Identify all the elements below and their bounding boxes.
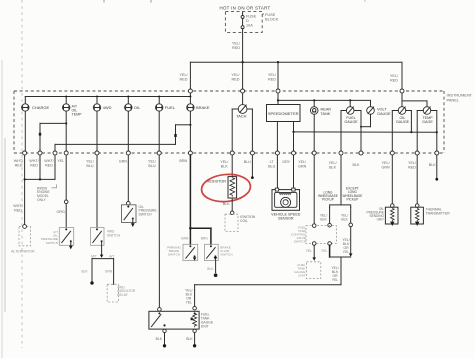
svg-text:BLK: BLK — [221, 164, 229, 168]
svg-text:GAUGE: GAUGE — [396, 120, 410, 124]
label INSTRUMENT PANEL — [447, 93, 473, 103]
svg-text:ONLY: ONLY — [37, 198, 47, 202]
gauge TEMP GAGE — [422, 107, 433, 125]
wire oil gauge YEL/GRN to sending unit — [391, 155, 395, 207]
label HOT IN ON OR START — [219, 6, 270, 11]
main tank grounds BLK — [156, 329, 197, 347]
svg-text:RED: RED — [14, 208, 22, 212]
tach side wires — [232, 109, 252, 153]
wire label BLK volt — [353, 163, 361, 167]
svg-text:FUSE: FUSE — [246, 15, 257, 19]
4wd switch — [91, 228, 121, 246]
svg-text:SWITCH: SWITCH — [294, 240, 306, 244]
svg-text:SWITCH: SWITCH — [46, 241, 58, 245]
wire brake lamp down — [189, 111, 191, 153]
svg-text:CHARGE: CHARGE — [32, 105, 49, 110]
wire except branch YEL/BLK — [341, 207, 353, 226]
svg-text:4WD: 4WD — [103, 105, 112, 110]
note LONG WHEELBASE PICKUP — [318, 190, 338, 201]
svg-text:BLU: BLU — [244, 160, 252, 164]
wire label BRN fluid — [201, 236, 209, 240]
svg-text:COIL: COIL — [240, 219, 248, 223]
svg-text:BLK: BLK — [341, 218, 348, 222]
top edge tick marks — [104, 0, 365, 3]
gauge TACH — [236, 105, 247, 119]
svg-text:GRY: GRY — [282, 160, 290, 164]
wire 4wd lamp down — [96, 111, 98, 153]
svg-text:SWITCH: SWITCH — [107, 233, 121, 237]
wire brake lamp to brake switches — [189, 155, 211, 244]
fuel gauge legs — [341, 111, 361, 154]
svg-text:BRN: BRN — [179, 159, 187, 163]
vehicle speed sensor — [271, 188, 301, 221]
wire label YEL/BLU 4wd — [86, 160, 95, 168]
lamp OIL — [125, 104, 142, 111]
svg-text:M/T: M/T — [91, 255, 97, 259]
gauge REAR TANK — [310, 107, 331, 153]
wire temp gauge YEL/RED to thermal transmitter — [415, 155, 419, 207]
svg-text:YEL: YEL — [321, 249, 328, 253]
wire label GRN — [119, 160, 128, 164]
wire main tank gauge feed — [185, 285, 196, 310]
svg-text:UNIT: UNIT — [201, 324, 209, 328]
svg-text:GRN: GRN — [381, 165, 390, 169]
svg-text:RED: RED — [231, 77, 239, 81]
svg-text:BLK: BLK — [223, 202, 231, 206]
svg-text:BLK: BLK — [429, 163, 437, 167]
svg-text:SWITCH: SWITCH — [139, 212, 153, 216]
speedometer box U2 — [267, 105, 301, 122]
wire label WHT/RED 2 — [29, 159, 39, 167]
brake fluid switch — [204, 244, 232, 260]
wire resistor BLK to ignition coil — [223, 198, 234, 215]
svg-text:YEL: YEL — [306, 249, 313, 253]
wire label BLU — [244, 160, 252, 164]
wire fuel lamp down to tank gauge unit — [158, 155, 162, 311]
lamp CHARGE — [22, 104, 50, 111]
temp gauge legs — [417, 111, 438, 154]
svg-text:BLK: BLK — [353, 163, 361, 167]
4wd indicator relay dashed box — [107, 284, 136, 302]
wire fuel gauge YEL/BLK to split — [330, 155, 351, 207]
wire label BRN — [179, 159, 187, 163]
instrument panel dashed box — [14, 91, 444, 153]
svg-text:YEL: YEL — [186, 300, 193, 304]
svg-text:A/T: A/T — [109, 255, 114, 259]
wire label WHT/RED to alternator — [13, 204, 23, 212]
svg-text:TRANSMITTER: TRANSMITTER — [426, 211, 451, 215]
svg-text:RED: RED — [408, 165, 416, 169]
wire rear tank YEL/GRN down — [313, 155, 315, 226]
wire tach YEL/BLK to resistor — [231, 155, 233, 177]
svg-text:RED: RED — [232, 46, 240, 50]
svg-text:BRAKE: BRAKE — [196, 105, 210, 110]
main fuel tank gauge unit — [149, 311, 214, 329]
connector row at panel bottom — [23, 151, 439, 155]
wire temp right BLK stub — [435, 155, 438, 181]
wire a/t lamp to switch ORG — [56, 155, 68, 228]
wire label YEL/BLU fuel — [148, 160, 157, 168]
label FUSE BLOCK — [262, 12, 278, 21]
gauge OIL GAUGE — [396, 101, 427, 124]
oil pressure sending unit — [366, 207, 398, 226]
svg-text:TEMP: TEMP — [72, 113, 83, 117]
svg-text:D: D — [246, 19, 249, 23]
svg-text:PICKUP: PICKUP — [322, 198, 334, 202]
svg-text:RELAY: RELAY — [117, 293, 128, 297]
svg-text:RED: RED — [268, 77, 276, 81]
wire tach BLU stub — [251, 155, 254, 179]
rear fuel tank gauge unit dashed box — [294, 262, 321, 279]
svg-text:RESISTOR: RESISTOR — [207, 180, 227, 184]
wire label YEL left — [306, 249, 313, 253]
resistor (tach) — [207, 177, 237, 198]
wire long wheelbase branch YEL/BLK — [320, 207, 331, 227]
volt gauge bottom leg — [360, 114, 371, 153]
red annotation ellipse — [200, 172, 251, 203]
svg-text:BLK: BLK — [156, 337, 163, 341]
svg-text:SENSOR: SENSOR — [278, 217, 294, 221]
wire 4wd lamp to switch — [96, 155, 98, 228]
connector pins at panel top — [188, 89, 404, 93]
wire branch brake to wht/red 3 — [55, 125, 190, 153]
svg-text:HOT IN ON OR START: HOT IN ON OR START — [219, 6, 270, 11]
lamp BRAKE — [187, 104, 210, 111]
page left dashed border — [21, 0, 23, 348]
wire bus drop to oil/temp gauges YEL/RED — [390, 62, 402, 101]
a/t oil pressure switch — [41, 228, 74, 250]
speedometer legs — [277, 122, 294, 154]
svg-text:UNIT: UNIT — [377, 218, 384, 222]
lamp FUEL — [156, 104, 176, 111]
svg-text:BLU: BLU — [86, 164, 94, 168]
gauge feed wire — [277, 99, 371, 107]
wire branch a/t to wht/red 2 — [39, 123, 66, 153]
gauge VOLT GAUGE — [367, 107, 391, 116]
svg-text:BLU: BLU — [268, 164, 276, 168]
svg-text:YEL: YEL — [332, 278, 339, 282]
wire label BRN parking — [181, 236, 189, 240]
oil pressure switch — [122, 205, 158, 227]
wire brake fluid BLK to ground — [207, 260, 217, 277]
svg-text:BLOCK: BLOCK — [265, 17, 279, 22]
wire label WHT/RED 3 — [44, 159, 54, 167]
svg-text:SWITCH: SWITCH — [168, 253, 180, 257]
svg-text:RED: RED — [15, 163, 23, 167]
wire oil lamp down — [127, 111, 129, 153]
wire label YEL — [57, 159, 64, 163]
svg-text:YEL: YEL — [57, 159, 64, 163]
svg-text:GRN: GRN — [105, 270, 113, 274]
oil gauge legs — [392, 111, 411, 154]
speedometer wires to speed sensor — [277, 155, 293, 189]
svg-text:SPEEDOMETER: SPEEDOMETER — [268, 111, 299, 116]
svg-text:UNIT: UNIT — [298, 274, 305, 278]
wire label YEL/GRN rear tank — [298, 160, 307, 168]
wire bus drop to tach — [231, 62, 242, 104]
wire bus drop to speedometer YEL/RED — [268, 62, 278, 104]
svg-text:SWITCH: SWITCH — [220, 253, 232, 257]
svg-text:FUEL: FUEL — [165, 105, 176, 110]
wire label YEL/RED temp — [408, 161, 417, 169]
ignition coil dashed box — [225, 214, 256, 231]
svg-text:RED: RED — [179, 77, 187, 81]
parking brake switch — [167, 244, 198, 260]
svg-text:BRN: BRN — [181, 236, 189, 240]
svg-text:YEL: YEL — [343, 250, 350, 254]
wire label LT BLU — [268, 160, 276, 168]
alternator dashed box — [11, 225, 35, 254]
wire fuse to bus YEL/RED — [232, 29, 243, 63]
note R950S ENGINE MODEL ONLY — [37, 184, 57, 201]
wire label YEL/BLK tach — [220, 160, 229, 168]
svg-text:GRN: GRN — [119, 160, 128, 164]
svg-text:GAGE: GAGE — [422, 120, 433, 124]
wire label BLK temp right — [429, 163, 437, 167]
wire fuel lamp down — [158, 111, 160, 153]
wire label YEL/BLK fuel gauge — [329, 161, 338, 169]
svg-text:RED: RED — [390, 78, 398, 82]
svg-text:BRN: BRN — [201, 236, 209, 240]
note EXCEPT LONG WHEELBASE PICKUP — [342, 187, 362, 202]
wire bus drop to lamps YEL/RED — [179, 62, 190, 104]
svg-text:ORG: ORG — [56, 210, 65, 214]
svg-text:BLU: BLU — [148, 164, 156, 168]
svg-text:BLK: BLK — [207, 267, 214, 271]
wire charge lamp down — [24, 111, 26, 153]
wire label YEL right — [321, 249, 328, 253]
svg-text:OIL: OIL — [134, 105, 141, 110]
svg-text:10A: 10A — [246, 23, 253, 27]
wire valve switch to rear gauge unit — [312, 245, 316, 260]
fuse D 10A — [241, 12, 256, 29]
svg-text:RED: RED — [30, 163, 38, 167]
svg-text:GRN: GRN — [298, 164, 307, 168]
fuel tank control valve switch dashed box — [291, 224, 337, 246]
wire 4wd switch to split — [91, 241, 114, 258]
wire YEL/BLK OR YEL down to main tank feed — [195, 257, 341, 285]
gauge lower rail — [294, 131, 437, 133]
svg-text:GAUGE: GAUGE — [377, 112, 391, 116]
bus wire horizontal — [190, 61, 402, 63]
lamp feed wire — [25, 96, 191, 104]
lamp A/T OIL TEMP — [62, 104, 82, 117]
lamp 4WD — [93, 104, 111, 111]
wire oil lamp to oil pressure switch — [127, 155, 131, 205]
svg-text:TANK: TANK — [321, 112, 331, 116]
fuse block dashed box — [225, 12, 262, 33]
svg-text:RED: RED — [45, 163, 53, 167]
wire a/t branch GRN to relay — [105, 259, 114, 285]
svg-text:BLK: BLK — [81, 270, 88, 274]
wire a/t lamp down — [65, 111, 67, 153]
scan streak left edge — [2, 60, 5, 358]
wire label WHT/RED 1 — [14, 159, 24, 167]
svg-text:ALTERNATOR: ALTERNATOR — [11, 250, 35, 254]
svg-text:GAUGE: GAUGE — [344, 120, 358, 124]
svg-text:BLK: BLK — [329, 165, 337, 169]
svg-text:PANEL: PANEL — [447, 97, 460, 102]
wire label GRY — [282, 160, 290, 164]
thermal transmitter — [411, 207, 450, 226]
gauge FUEL GAUGE — [344, 107, 358, 125]
svg-text:BLK: BLK — [320, 218, 327, 222]
wire m/t branch BLK to ground — [81, 259, 93, 285]
wire valve switch merge to main tank — [330, 227, 353, 257]
svg-text:PICKUP: PICKUP — [346, 197, 358, 201]
wht/red wires merge to alternator — [24, 155, 56, 226]
wire label YEL/GRN oil — [381, 161, 390, 169]
svg-text:TACH: TACH — [236, 114, 246, 119]
svg-text:BLK: BLK — [186, 337, 193, 341]
